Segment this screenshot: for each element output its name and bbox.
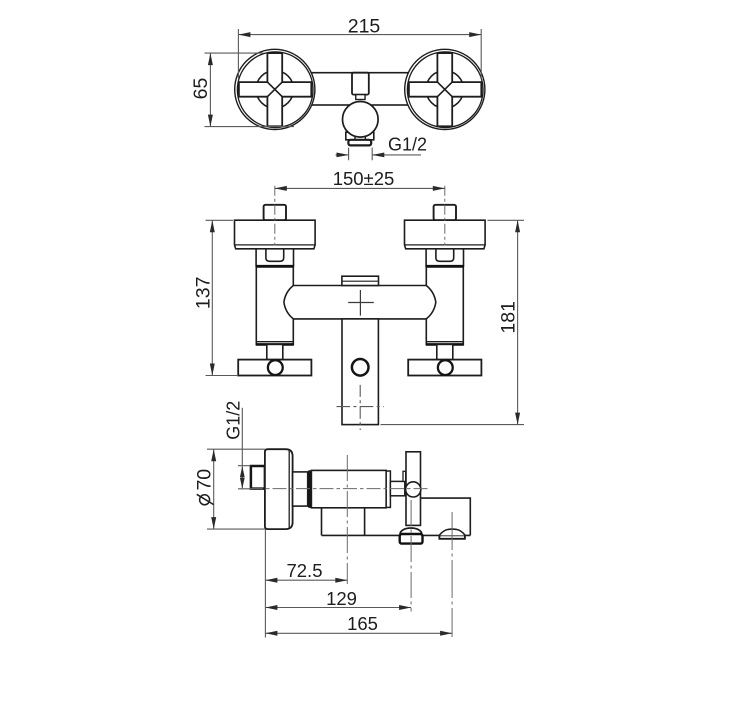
svg-text:137: 137 <box>192 277 214 310</box>
left column: body cylinder <box>256 266 293 344</box>
G1/2 stub extension lines <box>238 466 251 489</box>
vertical centerline outlet axis (dash-dot) <box>451 512 453 637</box>
spout outlet dome (hat) <box>439 529 465 535</box>
left column: escutcheon lip line <box>235 244 316 246</box>
dimension 65 line <box>209 53 211 127</box>
handle stem (side) <box>390 481 404 495</box>
svg-text:129: 129 <box>326 588 357 609</box>
horizontal centerline (dash-dot) <box>249 488 428 490</box>
dimension 181 line <box>517 220 519 424</box>
svg-text:165: 165 <box>347 613 378 634</box>
valve body (side) <box>311 470 386 507</box>
collar under diverter knob <box>346 132 374 140</box>
vertical centerline handle axis (dash-dot) <box>410 500 412 612</box>
right column: body bottom lines <box>426 341 463 343</box>
vertical centerline spout axis (dash-dot) <box>346 455 348 584</box>
dimension 215 line <box>238 34 481 36</box>
nut (side) <box>293 472 308 506</box>
escutcheon face line <box>288 450 290 528</box>
svg-text:G1/2: G1/2 <box>223 401 243 440</box>
G1/2 leader line <box>241 408 243 466</box>
right column: body top thick edge <box>426 265 464 268</box>
right column: escutcheon <box>405 220 486 249</box>
bottom outline line of spout assembly <box>322 534 471 536</box>
G1/2 stub arrow down <box>240 478 245 489</box>
G1/2 outlet flange (thick) <box>348 140 371 146</box>
dimension 150±25 line <box>275 187 445 189</box>
dimension 215 extension lines <box>238 29 481 79</box>
spout block side edges <box>322 508 365 536</box>
G1/2 wall stub <box>251 466 265 489</box>
dimension 129 line <box>265 607 411 609</box>
G1/2 (top) extension lines <box>349 148 373 161</box>
right column: nut under escutcheon <box>426 249 463 266</box>
left column: handle stem <box>267 344 283 359</box>
left column: inner nut <box>266 249 284 261</box>
body end cap <box>386 471 390 507</box>
handle hub circle (side) <box>406 482 421 497</box>
right column: body cylinder <box>426 266 463 344</box>
center mixer body bar (bullet ends) <box>284 286 436 319</box>
left handle inner rim circle <box>237 52 313 128</box>
diverter circle on spout <box>352 359 369 376</box>
washer (solid) <box>308 470 311 508</box>
Ø70 extension lines <box>207 449 265 529</box>
right handle cross arms (union outline) <box>409 53 481 126</box>
center cross mark on body <box>348 290 374 316</box>
right column: inner nut <box>436 249 454 261</box>
G1/2 stub arrow up <box>240 466 245 477</box>
left handle outer circle <box>235 49 315 129</box>
left column: escutcheon <box>235 220 316 249</box>
G1/2 stub dimension line with arrows <box>241 466 243 488</box>
escutcheon (side) <box>265 449 293 529</box>
svg-text:181: 181 <box>497 301 519 334</box>
right handle inner rim circle <box>407 52 483 128</box>
spout outlet base slab <box>439 535 465 538</box>
outlet centerline cross (dashed) <box>337 406 384 408</box>
wall extension line down <box>264 529 266 637</box>
left handle cross arms (union outline) <box>239 53 311 126</box>
svg-text:150±25: 150±25 <box>333 168 395 189</box>
left column: handle hub circle <box>268 360 283 375</box>
G1/2 (top) left arrow <box>337 153 349 158</box>
small tab above stem <box>403 471 406 481</box>
dimension 181 extension lines <box>381 220 525 424</box>
svg-text:G1/2: G1/2 <box>388 135 427 155</box>
left handle boss circle <box>256 71 294 109</box>
wall connection boss <box>352 73 369 95</box>
left column: nut under escutcheon <box>256 249 293 266</box>
svg-text:70: 70 <box>194 469 216 491</box>
right handle boss circle <box>426 71 464 109</box>
right column: handle stem <box>437 344 453 359</box>
dimension 65 extension lines <box>205 53 295 127</box>
dimension 137 line <box>211 220 213 375</box>
right column: cross handle bar <box>408 360 481 376</box>
G1/2 (top) right arrow <box>372 153 384 158</box>
right column: top nut <box>434 205 456 220</box>
diverter knob circle <box>343 102 379 138</box>
diameter symbol circle <box>200 495 210 505</box>
dimension 72.5 line <box>265 579 347 581</box>
diameter symbol slash <box>197 494 214 504</box>
left column: top nut <box>264 205 286 220</box>
boss stem <box>356 95 365 100</box>
right handle X diagonals <box>437 82 452 97</box>
svg-text:72.5: 72.5 <box>286 560 322 581</box>
column centerlines (dash-dot) <box>274 186 276 246</box>
diverter housing outline (L shape) <box>421 498 471 535</box>
G1/2 (top) dimension line with outside arrows <box>336 154 422 156</box>
boss on top of body bar <box>342 276 379 285</box>
right column: handle hub circle <box>438 360 453 375</box>
left handle X diagonals <box>267 82 282 97</box>
right column: escutcheon lip line <box>405 244 486 246</box>
handle bar (side) <box>406 452 421 526</box>
connecting bar (body) top view <box>280 73 440 105</box>
left column: body bottom lines <box>256 341 293 343</box>
svg-text:65: 65 <box>190 78 212 100</box>
step under diverter knob <box>355 136 365 139</box>
shower holder block (thick) <box>400 534 423 544</box>
left column: body top thick edge <box>256 265 294 268</box>
left column: cross handle bar <box>238 360 311 376</box>
dimension 137 extension lines <box>206 220 238 375</box>
shower holder dome <box>400 528 422 534</box>
Ø70 dimension line <box>213 449 215 529</box>
boss inner line <box>343 280 378 282</box>
right handle outer circle <box>405 49 485 129</box>
dimension 165 line <box>265 632 452 634</box>
svg-text:215: 215 <box>348 16 381 38</box>
spout / shower outlet block <box>342 319 378 425</box>
